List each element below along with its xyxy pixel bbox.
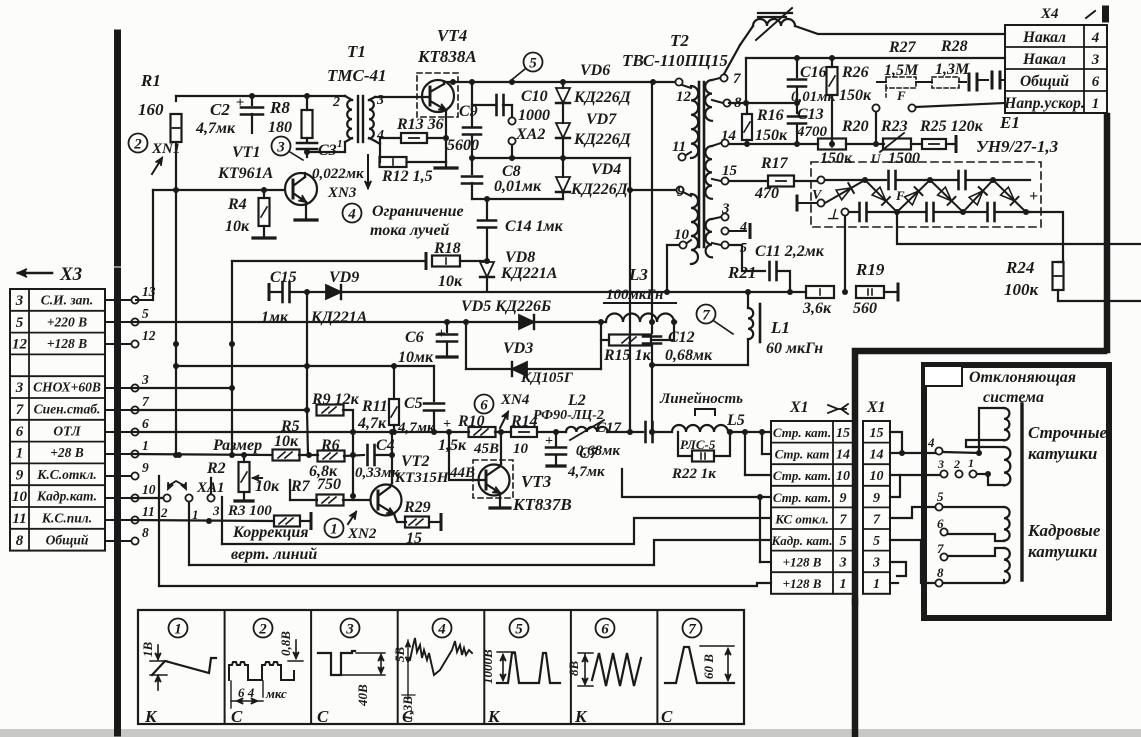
svg-text:1,5к: 1,5к: [438, 437, 467, 454]
svg-text:С4: С4: [376, 437, 395, 454]
svg-text:VT3: VT3: [521, 472, 552, 491]
svg-text:R1: R1: [140, 71, 161, 90]
svg-text:Общий: Общий: [46, 532, 89, 547]
svg-text:КТ961А: КТ961А: [217, 165, 274, 182]
svg-text:R29: R29: [403, 499, 431, 516]
svg-text:11: 11: [672, 139, 686, 155]
svg-text:9: 9: [840, 491, 847, 506]
svg-text:1,3В: 1,3В: [400, 696, 415, 721]
svg-text:11: 11: [142, 504, 155, 519]
svg-text:11: 11: [12, 511, 26, 527]
svg-text:С6: С6: [405, 329, 424, 346]
svg-text:5: 5: [840, 534, 847, 549]
svg-text:С3: С3: [318, 142, 337, 159]
svg-text:3: 3: [276, 140, 285, 156]
svg-text:+128 В: +128 В: [47, 336, 87, 351]
svg-text:VD4: VD4: [591, 161, 621, 178]
svg-text:R26: R26: [841, 64, 869, 81]
svg-text:К.С.откл.: К.С.откл.: [36, 467, 97, 482]
svg-text:Стр. кат.: Стр. кат.: [773, 468, 831, 483]
svg-text:С7: С7: [579, 445, 599, 462]
svg-text:0,68мк: 0,68мк: [665, 347, 713, 364]
svg-text:1: 1: [330, 522, 338, 538]
svg-text:R23: R23: [880, 118, 908, 135]
svg-text:R8: R8: [269, 98, 290, 117]
svg-text:4,7мк: 4,7мк: [397, 420, 435, 436]
svg-text:560: 560: [853, 300, 877, 317]
svg-text:Линейность: Линейность: [659, 391, 743, 407]
svg-text:КД221А: КД221А: [310, 309, 368, 326]
svg-text:0,022мк: 0,022мк: [312, 166, 364, 182]
svg-text:Х4: Х4: [1040, 6, 1059, 22]
svg-text:Напр.ускор.: Напр.ускор.: [1003, 95, 1084, 112]
svg-text:Кадровые: Кадровые: [1027, 521, 1101, 540]
svg-text:U: U: [871, 151, 881, 166]
svg-text:R13 36: R13 36: [396, 116, 444, 133]
svg-text:VТ4: VТ4: [437, 26, 467, 45]
svg-text:12: 12: [676, 89, 692, 105]
svg-text:К: К: [487, 707, 501, 726]
svg-text:1: 1: [1092, 96, 1100, 112]
svg-text:С: С: [661, 707, 673, 726]
svg-text:КД226Д: КД226Д: [570, 181, 629, 198]
svg-text:СНОХ+60В: СНОХ+60В: [33, 380, 101, 395]
svg-text:1: 1: [840, 577, 847, 592]
svg-text:VD7: VD7: [586, 111, 617, 128]
svg-text:10к: 10к: [225, 218, 250, 235]
svg-text:1000В: 1000В: [480, 649, 495, 684]
svg-text:2: 2: [332, 95, 340, 110]
svg-text:РФ90-ЛЦ-2: РФ90-ЛЦ-2: [533, 408, 604, 423]
svg-text:КД226Д: КД226Д: [573, 89, 632, 106]
svg-text:R16: R16: [756, 107, 784, 124]
svg-text:0,8В: 0,8В: [278, 631, 293, 656]
svg-text:С: С: [317, 707, 329, 726]
svg-text:С14 1мк: С14 1мк: [505, 218, 564, 235]
svg-text:Строчные: Строчные: [1028, 423, 1108, 442]
svg-text:7: 7: [937, 541, 944, 556]
svg-text:VD6: VD6: [580, 62, 610, 79]
svg-text:4: 4: [347, 207, 356, 223]
svg-text:VD5 КД226Б: VD5 КД226Б: [461, 298, 551, 315]
svg-text:5: 5: [142, 306, 149, 321]
svg-text:ХN4: ХN4: [500, 392, 530, 408]
svg-text:R11: R11: [361, 398, 388, 415]
svg-text:К: К: [574, 707, 588, 726]
svg-text:КД226Д: КД226Д: [573, 131, 632, 148]
svg-text:R12 1,5: R12 1,5: [381, 168, 433, 185]
svg-text:5В: 5В: [392, 647, 407, 663]
svg-text:10: 10: [142, 482, 156, 497]
svg-text:КС откл.: КС откл.: [774, 511, 829, 526]
svg-text:2: 2: [133, 137, 142, 153]
svg-text:ХN3: ХN3: [327, 185, 357, 201]
svg-text:L5: L5: [726, 412, 745, 429]
svg-text:Х3: Х3: [59, 264, 82, 285]
svg-text:VD9: VD9: [329, 269, 359, 286]
svg-text:10к: 10к: [438, 273, 463, 290]
svg-text:6: 6: [601, 622, 609, 638]
svg-text:7: 7: [16, 402, 24, 418]
svg-text:КТ315Н: КТ315Н: [394, 470, 450, 486]
svg-text:15: 15: [722, 163, 738, 179]
svg-text:Накал: Накал: [1022, 29, 1066, 46]
svg-text:тока лучей: тока лучей: [370, 222, 450, 239]
svg-text:катушки: катушки: [1028, 542, 1097, 561]
svg-text:С: С: [231, 707, 243, 726]
svg-text:С13: С13: [797, 106, 824, 123]
svg-text:6 4: 6 4: [238, 685, 255, 700]
svg-text:+128 В: +128 В: [783, 576, 822, 591]
svg-text:ТМС-41: ТМС-41: [327, 66, 387, 85]
svg-text:R25 120к: R25 120к: [919, 118, 984, 135]
svg-text:12: 12: [142, 328, 156, 343]
svg-text:С11 2,2мк: С11 2,2мк: [755, 243, 825, 260]
svg-text:4: 4: [437, 622, 446, 638]
svg-text:3: 3: [839, 556, 847, 571]
svg-text:10к: 10к: [274, 433, 299, 450]
svg-text:1: 1: [16, 446, 24, 462]
svg-text:9: 9: [16, 467, 24, 483]
svg-text:С10: С10: [521, 88, 548, 105]
svg-text:С2: С2: [210, 100, 230, 119]
svg-text:6: 6: [480, 398, 488, 414]
svg-text:5: 5: [529, 56, 537, 72]
svg-text:система: система: [983, 389, 1044, 406]
svg-text:1500: 1500: [888, 150, 920, 167]
svg-text:VD3: VD3: [503, 340, 533, 357]
svg-text:2: 2: [160, 505, 168, 520]
svg-text:VT1: VT1: [232, 144, 260, 161]
svg-text:60 В: 60 В: [701, 654, 716, 679]
svg-text:УН9/27-1,3: УН9/27-1,3: [976, 137, 1059, 156]
svg-text:180: 180: [268, 119, 292, 136]
svg-text:4,7мк: 4,7мк: [567, 464, 605, 480]
svg-text:3: 3: [1091, 52, 1100, 68]
svg-text:3: 3: [345, 622, 354, 638]
svg-text:3: 3: [872, 556, 880, 571]
svg-text:7: 7: [733, 71, 741, 87]
svg-text:3: 3: [937, 457, 944, 471]
svg-text:R27: R27: [888, 39, 917, 56]
svg-text:8: 8: [16, 533, 24, 549]
svg-text:К: К: [144, 707, 158, 726]
svg-text:РЛС-5: РЛС-5: [680, 437, 716, 452]
svg-text:R24: R24: [1005, 258, 1034, 277]
svg-text:750: 750: [317, 476, 341, 493]
svg-text:10к: 10к: [255, 478, 280, 495]
svg-text:R2: R2: [206, 460, 226, 477]
svg-text:R28: R28: [940, 38, 968, 55]
svg-text:1: 1: [337, 138, 343, 150]
svg-text:R7: R7: [290, 478, 311, 495]
svg-text:10: 10: [513, 441, 529, 457]
svg-text:Е1: Е1: [999, 113, 1020, 132]
svg-text:КД105Г: КД105Г: [520, 370, 574, 386]
svg-text:С.И. зап.: С.И. зап.: [41, 293, 94, 308]
svg-text:5: 5: [937, 489, 944, 504]
svg-text:12: 12: [12, 337, 28, 353]
svg-text:R17: R17: [760, 155, 789, 172]
svg-text:Стр. кат: Стр. кат: [775, 447, 830, 462]
svg-text:1: 1: [174, 622, 182, 638]
svg-text:100к: 100к: [1004, 280, 1039, 299]
svg-text:R20: R20: [841, 118, 869, 135]
svg-text:⊥: ⊥: [827, 208, 839, 223]
svg-text:9: 9: [142, 460, 149, 475]
svg-text:15: 15: [836, 426, 850, 441]
svg-text:F: F: [895, 188, 905, 203]
svg-text:6: 6: [937, 516, 944, 531]
svg-text:60 мкГн: 60 мкГн: [766, 340, 823, 357]
svg-text:+220 В: +220 В: [47, 314, 87, 329]
svg-text:Отклоняющая: Отклоняющая: [969, 369, 1076, 386]
svg-text:470: 470: [754, 185, 779, 202]
svg-text:Х1: Х1: [789, 399, 809, 416]
svg-text:5: 5: [515, 622, 523, 638]
svg-text:15: 15: [870, 426, 884, 441]
svg-text:3: 3: [376, 93, 384, 108]
svg-text:0,33мк: 0,33мк: [355, 465, 400, 481]
svg-text:150к: 150к: [820, 150, 853, 167]
svg-text:44В: 44В: [449, 465, 475, 481]
svg-text:1В: 1В: [140, 642, 155, 658]
svg-text:Стр. кат.: Стр. кат.: [773, 490, 831, 505]
svg-text:40В: 40В: [355, 684, 370, 707]
svg-text:Х1: Х1: [866, 399, 886, 416]
svg-text:4,7к: 4,7к: [357, 415, 387, 432]
svg-text:14: 14: [721, 128, 737, 144]
svg-text:3: 3: [15, 380, 24, 396]
svg-text:7: 7: [688, 622, 696, 638]
svg-text:1: 1: [142, 438, 149, 453]
svg-text:7: 7: [840, 512, 848, 527]
svg-text:4: 4: [1091, 30, 1100, 46]
svg-text:10: 10: [836, 469, 850, 484]
svg-text:2: 2: [258, 622, 267, 638]
svg-text:5600: 5600: [447, 137, 479, 154]
svg-text:3: 3: [212, 503, 220, 518]
svg-text:1,3М: 1,3М: [935, 61, 970, 78]
svg-text:6: 6: [16, 424, 24, 440]
svg-text:Т2: Т2: [670, 31, 689, 50]
svg-text:С12: С12: [668, 329, 695, 346]
svg-text:1000: 1000: [518, 107, 550, 124]
svg-text:катушки: катушки: [1028, 444, 1097, 463]
svg-text:КТ838А: КТ838А: [417, 47, 477, 66]
svg-text:L2: L2: [567, 392, 586, 409]
svg-text:100мкГн: 100мкГн: [606, 287, 663, 303]
svg-text:+: +: [1029, 188, 1038, 205]
svg-text:14: 14: [836, 448, 850, 463]
svg-text:R18: R18: [433, 240, 461, 257]
svg-text:5: 5: [873, 534, 880, 549]
svg-text:3,6к: 3,6к: [802, 300, 832, 317]
svg-text:К.С.пил.: К.С.пил.: [41, 511, 92, 526]
svg-text:С5: С5: [404, 395, 423, 412]
svg-text:Т1: Т1: [347, 42, 366, 61]
svg-text:ХN1: ХN1: [151, 141, 180, 157]
svg-text:С17: С17: [596, 420, 622, 436]
svg-text:9: 9: [873, 491, 880, 506]
svg-text:10мк: 10мк: [398, 349, 434, 366]
svg-text:R19: R19: [855, 260, 885, 279]
svg-text:R4: R4: [227, 196, 247, 213]
svg-text:R21: R21: [727, 263, 756, 282]
svg-text:R10: R10: [457, 413, 485, 430]
svg-text:+28 В: +28 В: [50, 445, 84, 460]
svg-text:8В: 8В: [566, 661, 581, 677]
svg-text:0,01мк: 0,01мк: [494, 178, 542, 195]
svg-text:10: 10: [12, 489, 28, 505]
svg-text:8: 8: [937, 565, 944, 580]
svg-text:3: 3: [721, 201, 730, 217]
svg-text:1: 1: [192, 507, 199, 522]
svg-text:3: 3: [15, 293, 24, 309]
svg-text:1: 1: [968, 456, 974, 470]
svg-text:VT2: VT2: [401, 453, 429, 470]
svg-text:С15: С15: [270, 269, 297, 286]
svg-text:6: 6: [142, 416, 149, 431]
svg-text:8: 8: [142, 525, 149, 540]
svg-text:Ограничение: Ограничение: [372, 203, 464, 220]
svg-text:4: 4: [927, 435, 935, 450]
svg-text:6: 6: [1092, 74, 1100, 90]
svg-text:Размер: Размер: [212, 437, 262, 454]
svg-text:R3 100: R3 100: [227, 503, 272, 519]
svg-text:Общий: Общий: [1020, 73, 1069, 90]
svg-text:10: 10: [674, 227, 690, 243]
svg-text:160: 160: [138, 100, 164, 119]
svg-text:Кадр. кат.: Кадр. кат.: [770, 533, 832, 548]
svg-text:5: 5: [16, 315, 24, 331]
svg-text:VD8: VD8: [505, 249, 535, 266]
svg-text:7: 7: [702, 308, 710, 324]
svg-text:КТ837В: КТ837В: [512, 495, 572, 514]
svg-text:Накал: Накал: [1022, 51, 1066, 68]
svg-text:3: 3: [141, 372, 149, 387]
svg-text:4,7мк: 4,7мк: [195, 120, 236, 137]
svg-text:ОТЛ: ОТЛ: [53, 423, 81, 438]
svg-text:ТВС-110ПЦ15: ТВС-110ПЦ15: [622, 51, 728, 70]
svg-text:2: 2: [953, 457, 960, 471]
svg-text:R22 1к: R22 1к: [671, 466, 716, 482]
svg-text:Стр. кат.: Стр. кат.: [773, 425, 831, 440]
svg-text:14: 14: [870, 448, 884, 463]
svg-text:4: 4: [739, 220, 747, 235]
svg-text:1мк: 1мк: [261, 309, 289, 326]
svg-text:+128 В: +128 В: [783, 555, 822, 570]
svg-text:150к: 150к: [755, 127, 788, 144]
svg-text:КД221А: КД221А: [500, 265, 558, 282]
svg-text:1: 1: [873, 577, 880, 592]
svg-text:мкс: мкс: [265, 686, 287, 701]
svg-text:ХN2: ХN2: [347, 526, 377, 542]
svg-text:10: 10: [870, 469, 884, 484]
svg-text:F: F: [896, 88, 906, 103]
svg-text:ХА2: ХА2: [515, 126, 545, 143]
svg-text:Кадр.кат.: Кадр.кат.: [36, 489, 97, 504]
svg-text:верт. линий: верт. линий: [231, 546, 317, 563]
svg-text:7: 7: [873, 512, 881, 527]
svg-text:Сиен.стаб.: Сиен.стаб.: [34, 402, 101, 417]
svg-text:45В: 45В: [473, 441, 499, 457]
svg-text:R15 1к: R15 1к: [603, 347, 652, 364]
svg-text:L1: L1: [770, 318, 790, 337]
svg-text:150к: 150к: [839, 87, 872, 104]
